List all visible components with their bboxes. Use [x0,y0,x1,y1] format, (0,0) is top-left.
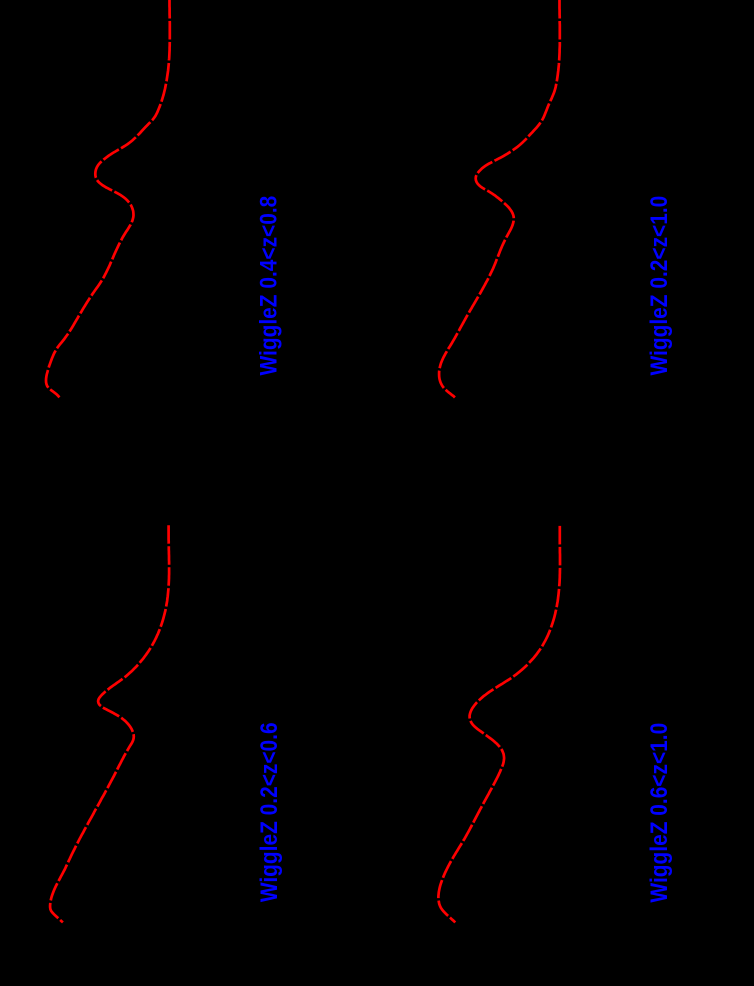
svg-text:WiggleZ 0.2<z<0.6: WiggleZ 0.2<z<0.6 [254,722,282,902]
svg-text:WiggleZ 0.4<z<0.8: WiggleZ 0.4<z<0.8 [254,196,282,376]
svg-text:WiggleZ 0.6<z<1.0: WiggleZ 0.6<z<1.0 [644,723,672,903]
svg-text:WiggleZ 0.2<z<1.0: WiggleZ 0.2<z<1.0 [644,196,672,376]
